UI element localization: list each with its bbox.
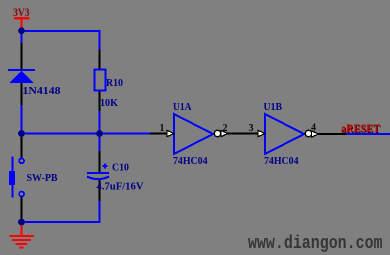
svg-text:1N4148: 1N4148 [23,86,61,97]
svg-text:4.7uF/16V: 4.7uF/16V [97,182,145,193]
svg-text:SW-PB: SW-PB [27,173,58,184]
svg-text:4: 4 [311,123,316,134]
svg-text:U1A: U1A [173,102,192,113]
svg-text:1: 1 [160,123,165,134]
svg-text:74HC04: 74HC04 [264,156,299,167]
svg-text:10K: 10K [100,98,118,109]
svg-text:www.diangon.com: www.diangon.com [248,234,383,254]
svg-text:74HC04: 74HC04 [173,156,208,167]
svg-text:aRESET: aRESET [341,123,380,135]
svg-text:U1B: U1B [264,102,283,113]
svg-text:C10: C10 [112,163,129,174]
svg-text:2: 2 [223,123,228,134]
svg-text:3: 3 [249,123,254,134]
svg-text:R10: R10 [106,78,123,89]
svg-text:3V3: 3V3 [13,5,30,19]
